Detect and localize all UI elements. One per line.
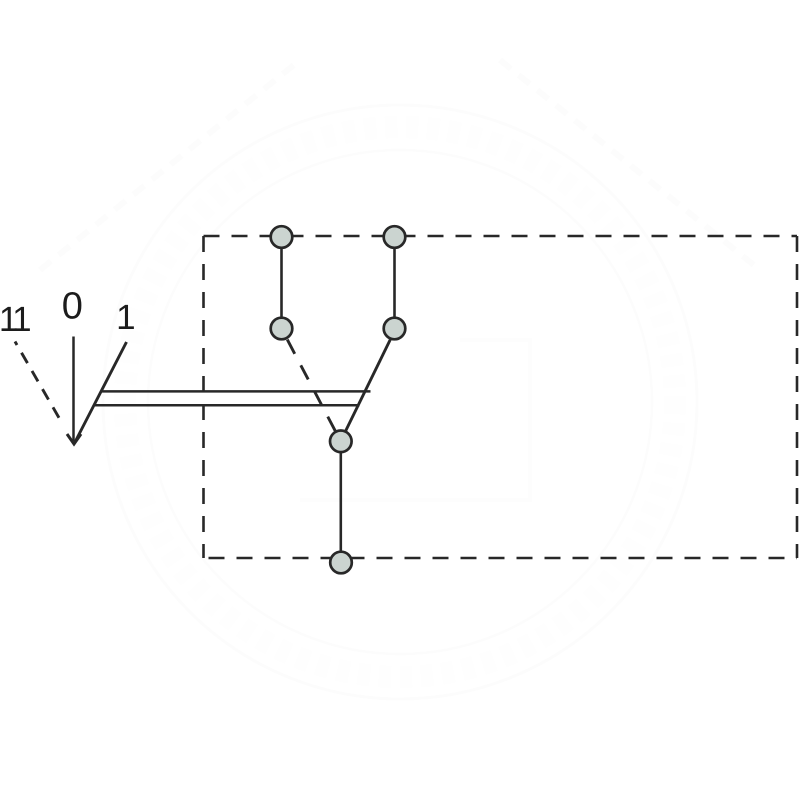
watermark seal (faint background) [40,60,760,699]
svg-text:1: 1 [116,298,135,337]
lever position 0 (vertical line with arrow) [72,337,75,442]
terminal (mid-right) [384,318,406,340]
wire: common center terminal to bottom terminal [339,452,342,552]
svg-text:0: 0 [62,286,83,328]
terminal (top-right) [384,226,406,248]
lever position 11 (dashed stroke) [15,342,62,424]
lever in position 1 (solid stroke from pivot) [74,342,127,444]
svg-text:1: 1 [12,300,31,339]
arrowhead at pivot [67,434,81,444]
terminal (top-left) [271,226,293,248]
terminal (mid-left) [271,318,293,340]
terminal (common, center) [330,431,352,453]
actuator bar lower [94,404,359,407]
terminal (bottom) [330,552,352,574]
contact blade open, alternate position (dashed, mid-left terminal to common terminal) [287,340,335,431]
wire: top-right terminal to mid-right terminal [393,248,396,318]
wire: top-left terminal to mid-left terminal [280,248,283,318]
switch enclosure (dashed outline) [204,236,798,558]
actuator bar upper [101,390,371,393]
contact blade closed (mid-right terminal to common terminal) [346,340,391,431]
